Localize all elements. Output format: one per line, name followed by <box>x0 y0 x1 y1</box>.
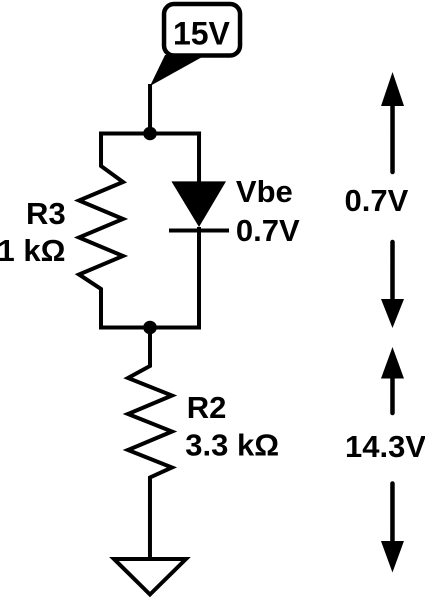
svg-text:0.7V: 0.7V <box>236 213 300 248</box>
svg-text:R3: R3 <box>26 196 66 231</box>
svg-text:3.3 kΩ: 3.3 kΩ <box>185 428 279 463</box>
svg-text:Vbe: Vbe <box>236 174 293 209</box>
svg-text:14.3V: 14.3V <box>345 429 425 464</box>
svg-text:R2: R2 <box>187 390 227 425</box>
svg-text:15V: 15V <box>173 16 231 52</box>
svg-text:0.7V: 0.7V <box>345 183 409 218</box>
svg-text:1 kΩ: 1 kΩ <box>0 233 66 268</box>
